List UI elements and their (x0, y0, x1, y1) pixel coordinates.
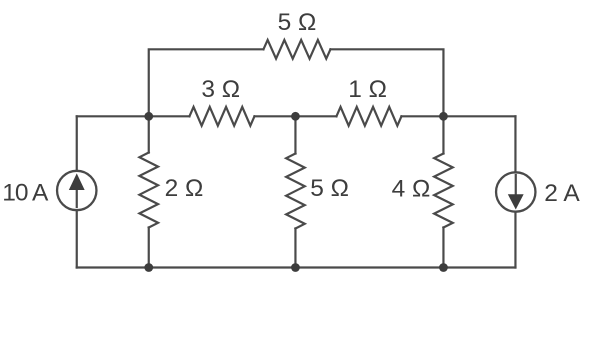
svg-text:2 Ω: 2 Ω (165, 175, 204, 202)
svg-text:5 Ω: 5 Ω (278, 9, 317, 36)
svg-text:5 Ω: 5 Ω (310, 175, 349, 202)
svg-text:1 Ω: 1 Ω (348, 76, 387, 103)
svg-text:4 Ω: 4 Ω (392, 176, 431, 203)
svg-text:3 Ω: 3 Ω (201, 76, 240, 103)
svg-text:2 A: 2 A (544, 180, 580, 207)
svg-text:10 A: 10 A (2, 180, 49, 207)
